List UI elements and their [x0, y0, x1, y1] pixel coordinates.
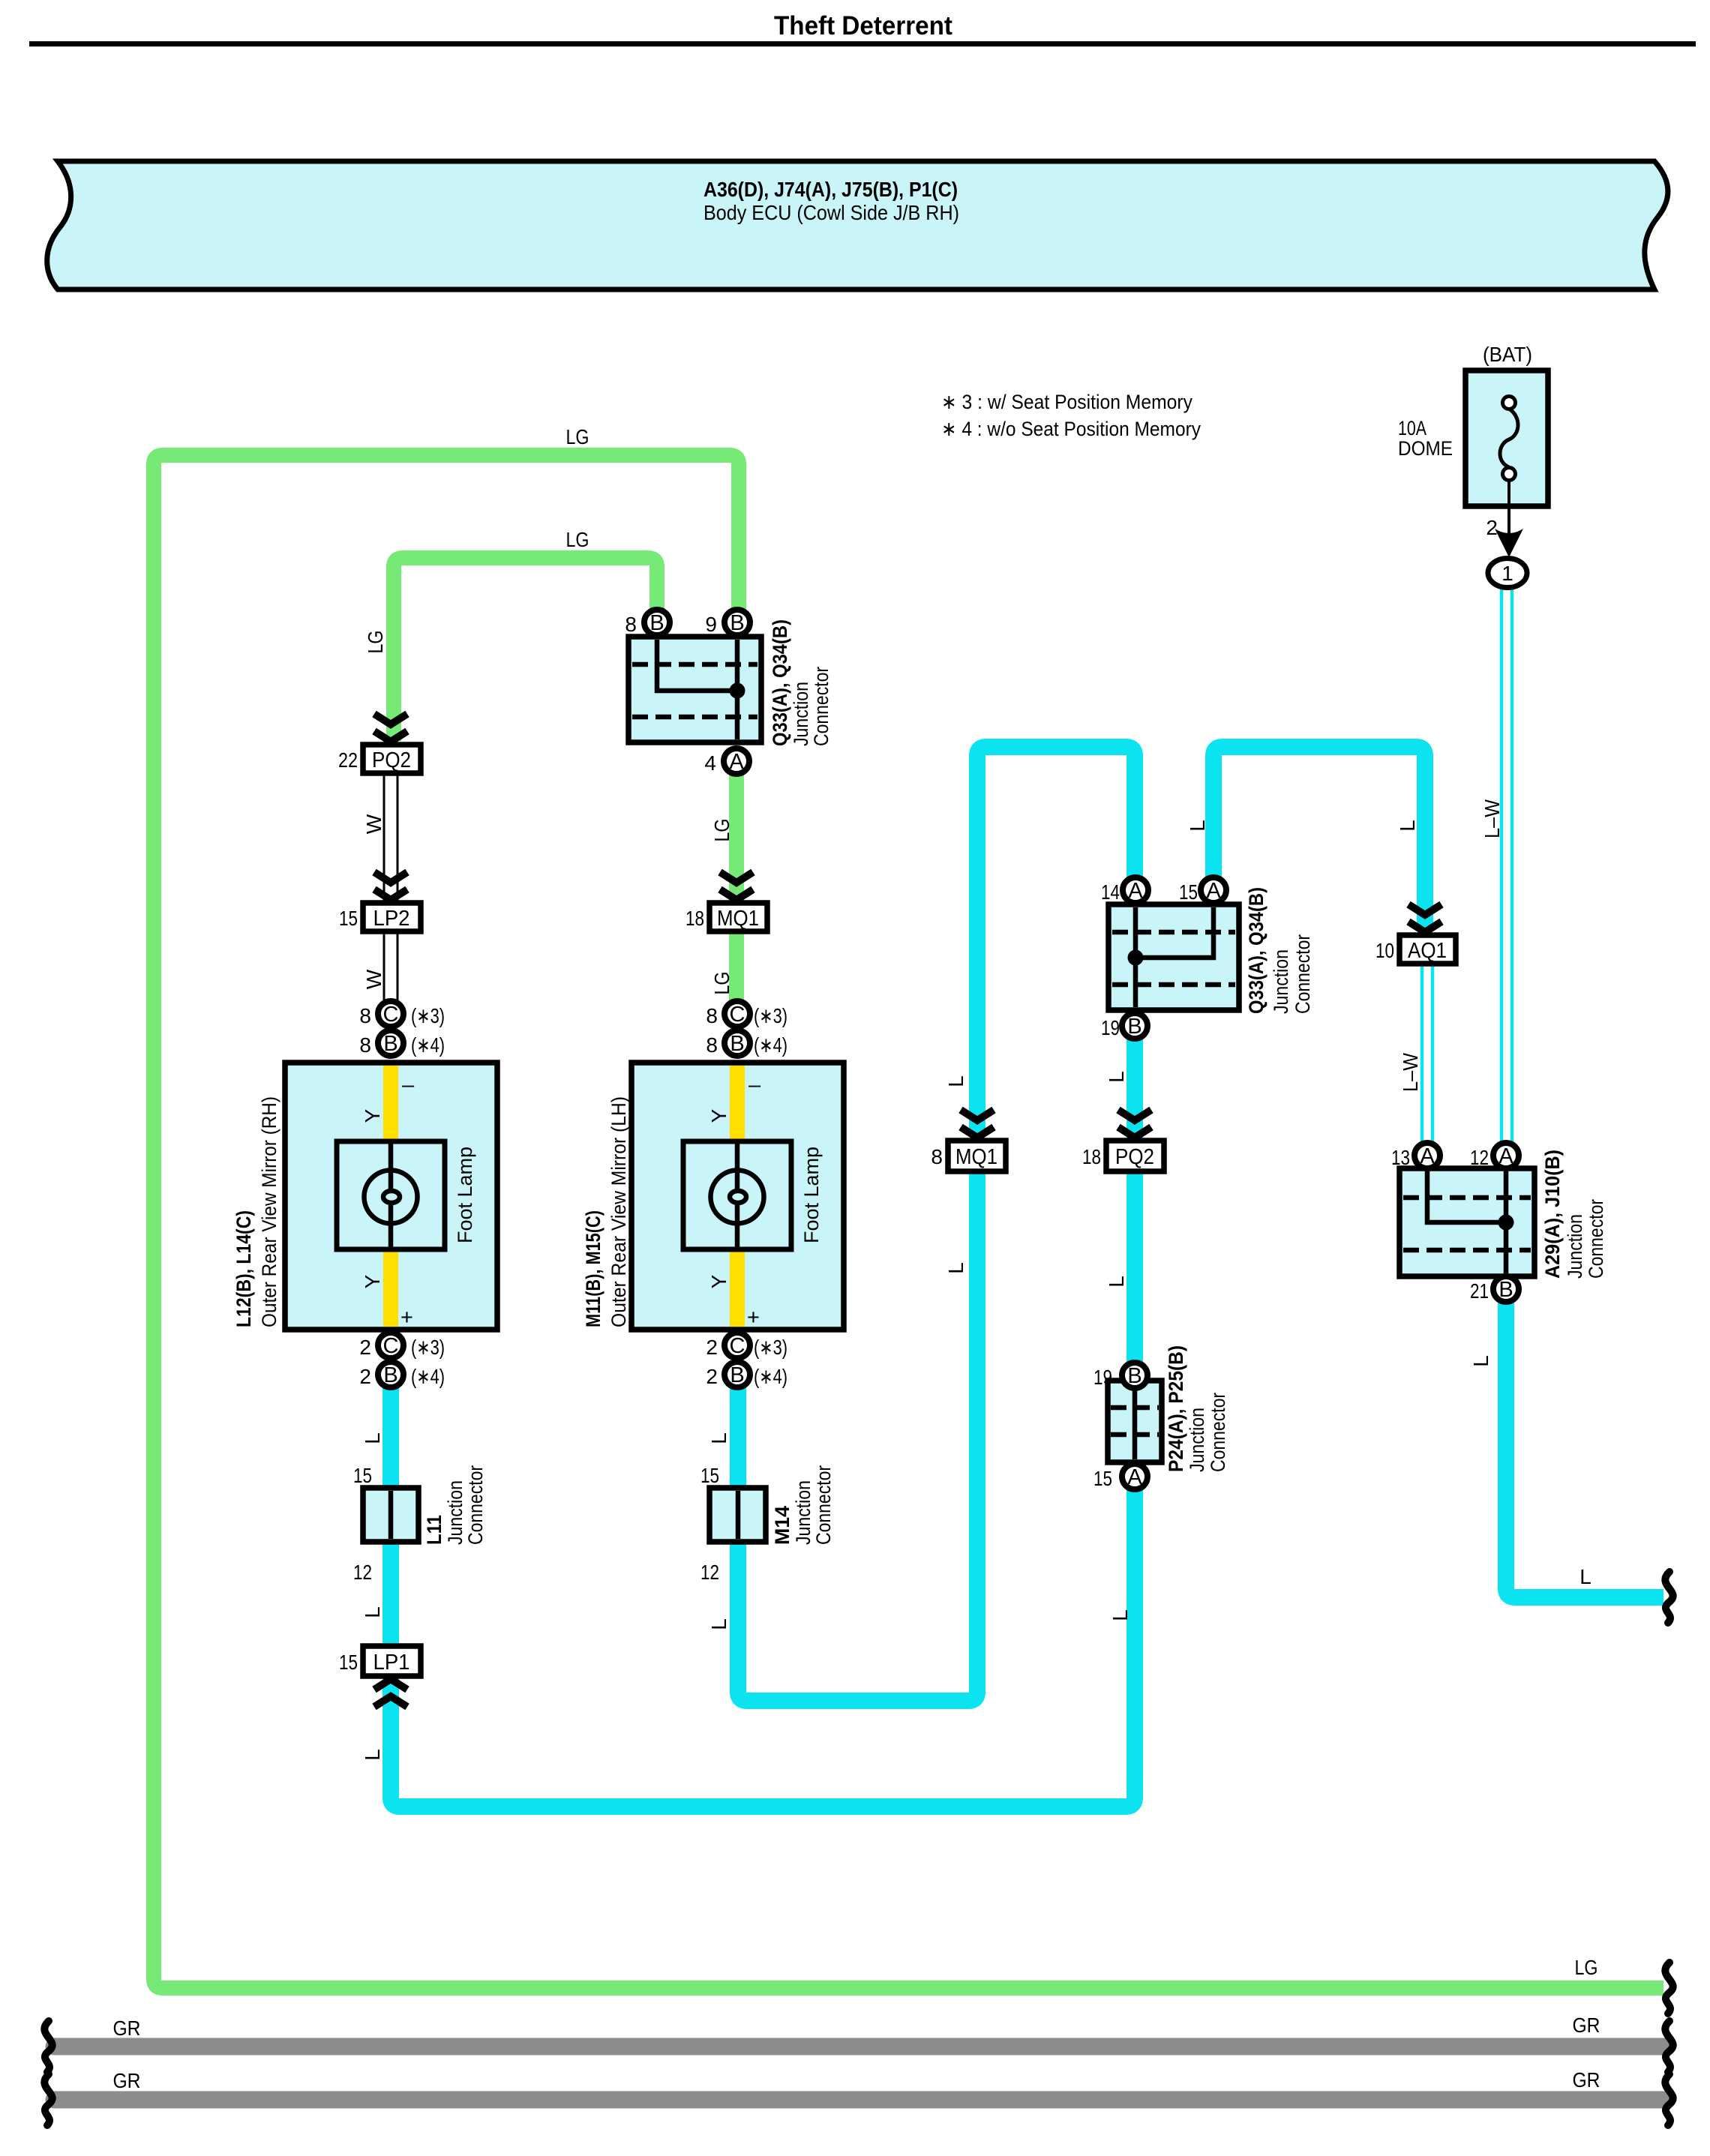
- svg-text:L: L: [1579, 1565, 1591, 1588]
- mirror LH pin 2 C: [706, 1333, 787, 1359]
- svg-text:22: 22: [338, 748, 358, 772]
- break squiggle LG right: [1665, 1963, 1672, 2014]
- outer rear view mirror LH M11(B) M15(C): [582, 1063, 844, 1330]
- svg-text:Junction: Junction: [792, 1480, 814, 1545]
- terminal PQ2 22: [338, 745, 421, 773]
- svg-text:8: 8: [359, 1004, 371, 1027]
- junction connector Q33(A) Q34(B) upper: [628, 619, 832, 746]
- break squiggle L bottom right: [1665, 1572, 1672, 1623]
- svg-text:A: A: [1128, 879, 1143, 903]
- terminal MQ1 8: [931, 1141, 1006, 1171]
- svg-text:19: 19: [1093, 1366, 1112, 1389]
- svg-text:P24(A), P25(B): P24(A), P25(B): [1165, 1345, 1187, 1472]
- wire W thin pair PQ2 to LP2: [384, 773, 397, 903]
- pin 12 A of JC A29: [1470, 1143, 1519, 1169]
- svg-text:MQ1: MQ1: [955, 1145, 997, 1169]
- svg-text:LP1: LP1: [373, 1651, 410, 1675]
- svg-text:∗ 3 : w/ Seat Position Memory: ∗ 3 : w/ Seat Position Memory: [941, 391, 1192, 413]
- svg-text:Q33(A), Q34(B): Q33(A), Q34(B): [1245, 887, 1267, 1014]
- svg-text:B: B: [730, 1032, 744, 1056]
- svg-text:AQ1: AQ1: [1408, 939, 1447, 963]
- svg-text:Outer Rear View Mirror (LH): Outer Rear View Mirror (LH): [607, 1096, 630, 1327]
- svg-text:A: A: [1127, 1465, 1142, 1489]
- svg-text:B: B: [383, 1363, 397, 1387]
- svg-text:21: 21: [1470, 1279, 1489, 1303]
- svg-text:Connector: Connector: [810, 667, 832, 746]
- mirror RH pin 8 C: [359, 1001, 445, 1027]
- junction connector M14: [700, 1464, 835, 1584]
- svg-text:2: 2: [706, 1365, 718, 1388]
- svg-text:Connector: Connector: [1585, 1199, 1607, 1279]
- node 1 ellipse: [1488, 559, 1527, 588]
- svg-text:PQ2: PQ2: [372, 748, 411, 772]
- svg-text:LG: LG: [566, 528, 589, 551]
- svg-text:A36(D), J74(A), J75(B), P1(C): A36(D), J74(A), J75(B), P1(C): [703, 178, 958, 201]
- svg-text:GR: GR: [113, 2069, 141, 2092]
- svg-text:15: 15: [1093, 1467, 1112, 1490]
- svg-text:(∗3): (∗3): [754, 1336, 787, 1359]
- svg-text:(BAT): (BAT): [1483, 343, 1532, 366]
- outer rear view mirror RH L12(B) L14(C): [232, 1063, 497, 1330]
- svg-text:W: W: [362, 814, 385, 834]
- svg-text:Outer Rear View Mirror (RH): Outer Rear View Mirror (RH): [258, 1096, 280, 1327]
- svg-text:L: L: [1105, 1071, 1128, 1083]
- mirror LH pin 2 B: [706, 1362, 787, 1388]
- svg-text:15: 15: [339, 1651, 358, 1674]
- svg-text:GR: GR: [1573, 2014, 1600, 2037]
- terminal MQ1 18: [685, 903, 767, 931]
- svg-text:–: –: [402, 1073, 415, 1097]
- svg-text:M11(B), M15(C): M11(B), M15(C): [582, 1210, 604, 1327]
- svg-text:L: L: [361, 1749, 384, 1761]
- fuse 10A DOME: [1398, 343, 1548, 555]
- svg-text:8: 8: [625, 613, 637, 636]
- svg-text:Junction: Junction: [444, 1480, 466, 1545]
- svg-text:2: 2: [359, 1365, 371, 1388]
- svg-text:LG: LG: [710, 972, 733, 995]
- svg-text:18: 18: [685, 907, 704, 930]
- svg-text:12: 12: [1470, 1146, 1489, 1169]
- svg-text:A: A: [1498, 1144, 1513, 1168]
- svg-text:(∗3): (∗3): [754, 1004, 787, 1027]
- svg-text:L: L: [1186, 820, 1209, 832]
- junction connector A29(A) J10(B): [1399, 1150, 1607, 1279]
- svg-text:15: 15: [339, 907, 358, 930]
- svg-text:L: L: [1469, 1355, 1492, 1367]
- mirror RH pin 8 B: [359, 1030, 445, 1057]
- pin 9 B of JC upper: [705, 610, 750, 636]
- wire L M14 down and over up to MQ1 8: [738, 1170, 977, 1701]
- svg-text:Body ECU (Cowl Side J/B RH): Body ECU (Cowl Side J/B RH): [703, 201, 959, 224]
- wire L JC2 pin A15 up and over to AQ1 10: [1213, 747, 1425, 931]
- mirror RH pin 2 C: [359, 1333, 445, 1359]
- svg-text:Y: Y: [707, 1274, 730, 1288]
- svg-text:8: 8: [359, 1033, 371, 1057]
- wire L mirror LH to M14 junction connector: [730, 1387, 746, 1488]
- chevron above AQ1 10: [1408, 904, 1441, 932]
- svg-text:B: B: [1127, 1015, 1141, 1039]
- svg-text:A: A: [729, 750, 744, 774]
- junction connector L11: [353, 1464, 487, 1584]
- svg-text:LG: LG: [364, 631, 387, 654]
- mirror LH pin 8 B: [706, 1030, 787, 1057]
- wire L MQ1 8 up and over to JC2 pin A14: [977, 747, 1135, 1137]
- svg-text:B: B: [730, 611, 744, 635]
- svg-text:Connector: Connector: [812, 1465, 835, 1545]
- Body ECU banner: [47, 161, 1668, 289]
- svg-text:8: 8: [931, 1145, 943, 1168]
- pin 21 B of JC A29: [1470, 1276, 1519, 1303]
- svg-text:C: C: [383, 1334, 399, 1358]
- svg-text:L–W: L–W: [1480, 799, 1504, 838]
- svg-text:B: B: [1127, 1364, 1141, 1388]
- wire W thin pair LP2 to mirror RH pin C: [384, 931, 397, 1002]
- svg-text:L: L: [361, 1432, 384, 1444]
- svg-text:B: B: [730, 1363, 744, 1387]
- svg-text:Junction: Junction: [1564, 1214, 1586, 1279]
- chevron up below LP1: [374, 1679, 407, 1707]
- wire L from JC2 pin B19 through PQ2 18 to P24 pin B19: [1126, 1039, 1143, 1363]
- wire LG main loop (left vertical + top horizontal + bottom horizontal): [154, 455, 1663, 1988]
- svg-text:8: 8: [706, 1033, 718, 1057]
- junction connector Q33(A) Q34(B) lower: [1108, 887, 1314, 1014]
- svg-text:L–W: L–W: [1399, 1052, 1422, 1092]
- svg-text:DOME: DOME: [1398, 437, 1453, 460]
- svg-text:M14: M14: [771, 1506, 793, 1545]
- svg-text:–: –: [748, 1073, 761, 1097]
- svg-text:LG: LG: [566, 425, 589, 448]
- mirror LH pin 8 C: [706, 1001, 787, 1027]
- svg-text:14: 14: [1101, 880, 1120, 904]
- svg-text:15: 15: [700, 1464, 719, 1487]
- svg-text:+: +: [400, 1306, 413, 1330]
- junction connector P24(A) P25(B): [1108, 1345, 1229, 1472]
- svg-text:MQ1: MQ1: [717, 907, 759, 931]
- pin 13 A of JC A29: [1391, 1143, 1440, 1169]
- break squiggle GR upper left: [44, 2021, 52, 2072]
- pin 4 A of JC upper: [704, 748, 749, 775]
- wire LG from JC pin A4 to MQ1 18 and mirror LH pin C: [729, 772, 744, 1001]
- svg-text:Q33(A), Q34(B): Q33(A), Q34(B): [769, 619, 791, 746]
- title rule: [29, 41, 1696, 46]
- wire L-W thin pair AQ1 to JC3 pin A13: [1422, 964, 1432, 1143]
- svg-text:L11: L11: [423, 1515, 445, 1545]
- break squiggle GR lower left: [44, 2074, 52, 2125]
- svg-text:Theft Deterrent: Theft Deterrent: [774, 11, 952, 40]
- svg-text:LG: LG: [1575, 1956, 1598, 1979]
- svg-text:19: 19: [1101, 1016, 1120, 1039]
- svg-text:Junction: Junction: [1270, 949, 1292, 1014]
- break squiggle GR upper right: [1665, 2021, 1672, 2072]
- svg-text:C: C: [383, 1003, 399, 1027]
- chevron above PQ2 18: [1118, 1110, 1151, 1138]
- arrow down at fuse output: [1495, 529, 1523, 557]
- svg-text:(∗4): (∗4): [411, 1365, 445, 1388]
- svg-text:2: 2: [1486, 516, 1498, 539]
- svg-text:L: L: [361, 1606, 384, 1618]
- break squiggle GR lower right: [1665, 2074, 1672, 2125]
- chevron above MQ1 8: [961, 1110, 994, 1138]
- svg-text:C: C: [730, 1003, 745, 1027]
- wire LG branch to PQ2 22 and JC pin B8: [394, 558, 657, 741]
- pin 15 A of P24: [1093, 1464, 1147, 1490]
- svg-text:+: +: [747, 1306, 760, 1330]
- svg-text:L: L: [1105, 1276, 1128, 1288]
- svg-text:Foot Lamp: Foot Lamp: [454, 1147, 476, 1243]
- svg-text:Connector: Connector: [1291, 934, 1314, 1014]
- wire L-W thin pair fuse to JC3 pin A12: [1501, 588, 1512, 1143]
- pin 14 A of JC lower: [1101, 877, 1148, 904]
- mirror RH pin 2 B: [359, 1362, 445, 1388]
- svg-text:L: L: [1396, 820, 1419, 832]
- svg-text:(∗4): (∗4): [754, 1033, 787, 1057]
- svg-text:B: B: [1498, 1278, 1513, 1302]
- svg-text:(∗4): (∗4): [754, 1365, 787, 1388]
- pin 19 B of P24: [1093, 1363, 1147, 1389]
- svg-text:Y: Y: [361, 1274, 384, 1288]
- wire L JC3 pin B21 down and right to break: [1506, 1302, 1663, 1597]
- wire L mirror RH to L11 to LP1 to bottom run up to P24 pin A15: [391, 1387, 1135, 1807]
- svg-text:LG: LG: [710, 819, 733, 842]
- pin 8 B of JC upper: [625, 610, 670, 636]
- svg-text:2: 2: [706, 1336, 718, 1359]
- svg-text:L: L: [944, 1075, 967, 1087]
- svg-text:L: L: [944, 1262, 967, 1274]
- terminal LP1 15: [339, 1646, 421, 1676]
- svg-text:L: L: [707, 1432, 730, 1444]
- svg-text:W: W: [362, 969, 385, 989]
- svg-text:Foot Lamp: Foot Lamp: [800, 1147, 823, 1243]
- svg-text:Y: Y: [707, 1108, 730, 1123]
- svg-text:1: 1: [1501, 562, 1513, 585]
- svg-text:13: 13: [1391, 1146, 1410, 1169]
- chevron above MQ1 18: [720, 872, 753, 900]
- svg-text:Y: Y: [361, 1108, 384, 1123]
- terminal AQ1 10: [1375, 935, 1456, 964]
- svg-text:C: C: [730, 1334, 745, 1358]
- pin 15 A of JC lower: [1179, 877, 1226, 904]
- svg-text:(∗3): (∗3): [411, 1004, 445, 1027]
- svg-text:10A: 10A: [1398, 417, 1426, 439]
- svg-text:(∗3): (∗3): [411, 1336, 445, 1359]
- svg-text:12: 12: [353, 1561, 372, 1584]
- svg-text:A: A: [1420, 1144, 1435, 1168]
- svg-text:B: B: [649, 611, 664, 635]
- svg-text:L12(B), L14(C): L12(B), L14(C): [232, 1210, 255, 1327]
- svg-text:18: 18: [1082, 1145, 1101, 1168]
- svg-text:(∗4): (∗4): [411, 1033, 445, 1057]
- svg-text:15: 15: [353, 1464, 372, 1487]
- svg-text:9: 9: [705, 613, 717, 636]
- terminal PQ2 18: [1082, 1141, 1164, 1171]
- chevron above LP2: [374, 872, 407, 900]
- svg-text:10: 10: [1375, 939, 1394, 962]
- terminal LP2 15: [339, 903, 421, 931]
- wire GR lower bar: [54, 2092, 1663, 2109]
- svg-text:L: L: [1108, 1609, 1132, 1621]
- svg-text:2: 2: [359, 1336, 371, 1359]
- svg-text:15: 15: [1179, 880, 1198, 904]
- svg-text:A29(A), J10(B): A29(A), J10(B): [1541, 1150, 1564, 1279]
- svg-text:PQ2: PQ2: [1115, 1145, 1154, 1169]
- svg-text:A: A: [1206, 879, 1221, 903]
- svg-text:L: L: [707, 1618, 730, 1630]
- chevron above PQ2 22: [374, 714, 407, 742]
- svg-text:8: 8: [706, 1004, 718, 1027]
- svg-text:Connector: Connector: [464, 1465, 487, 1545]
- svg-text:Connector: Connector: [1207, 1393, 1229, 1472]
- svg-text:Junction: Junction: [1186, 1408, 1208, 1472]
- svg-text:12: 12: [700, 1561, 719, 1584]
- svg-text:Junction: Junction: [790, 682, 812, 746]
- pin 19 B of JC lower: [1101, 1013, 1147, 1039]
- svg-text:B: B: [383, 1032, 397, 1056]
- svg-text:∗ 4 : w/o Seat Position Memory: ∗ 4 : w/o Seat Position Memory: [941, 418, 1201, 440]
- svg-text:GR: GR: [113, 2017, 141, 2040]
- svg-text:4: 4: [704, 751, 716, 775]
- svg-text:GR: GR: [1573, 2068, 1600, 2092]
- svg-text:LP2: LP2: [373, 907, 410, 931]
- wire GR upper bar: [54, 2038, 1663, 2056]
